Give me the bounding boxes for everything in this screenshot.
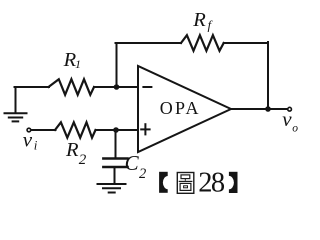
- wire Rf to right corner: [224, 42, 268, 44]
- svg-text:1: 1: [75, 57, 81, 71]
- ground (left, at R1 input): [5, 87, 27, 121]
- wire node B down to C2: [115, 130, 117, 157]
- node A junction dot (minus row): [114, 84, 120, 90]
- svg-text:f: f: [208, 17, 214, 32]
- svg-text:28: 28: [198, 168, 225, 199]
- svg-text:2: 2: [139, 166, 146, 182]
- wire feedback vertical from node A: [116, 43, 118, 87]
- output terminal vo circle: [288, 107, 292, 111]
- svg-text:v: v: [23, 128, 33, 152]
- wire feedback top horizontal: [116, 42, 182, 44]
- resistor R2: [55, 122, 96, 137]
- wire ground to R1: [15, 86, 50, 88]
- svg-text:R: R: [192, 9, 206, 31]
- capacitor C2: [103, 159, 127, 168]
- wire vi to R2: [32, 129, 56, 131]
- node B junction dot (plus row): [113, 127, 119, 133]
- wire op-amp output: [231, 108, 288, 110]
- svg-text:2: 2: [79, 152, 87, 168]
- ground (below C2): [98, 184, 126, 193]
- wire C2 to ground: [114, 168, 116, 183]
- svg-text:OPA: OPA: [160, 98, 201, 118]
- svg-text:i: i: [34, 138, 38, 153]
- wire R1 to op-amp minus input: [94, 86, 138, 88]
- caption glyph 圖: [177, 173, 194, 194]
- caption bracket left 【: [159, 172, 173, 193]
- wire feedback right vertical: [267, 42, 269, 109]
- svg-text:o: o: [292, 123, 298, 135]
- input terminal vi circle: [27, 128, 31, 132]
- op-amp U1 triangle: [138, 66, 231, 152]
- resistor R1: [49, 79, 95, 95]
- wire R2 to op-amp plus input: [96, 129, 138, 131]
- plus input pin: [141, 124, 149, 134]
- resistor Rf: [181, 35, 224, 51]
- minus input pin: [143, 86, 151, 88]
- svg-text:R: R: [65, 139, 79, 161]
- caption bracket right 】: [224, 172, 238, 193]
- svg-text:C: C: [125, 151, 140, 175]
- output node junction dot: [265, 106, 271, 112]
- svg-text:v: v: [282, 107, 292, 131]
